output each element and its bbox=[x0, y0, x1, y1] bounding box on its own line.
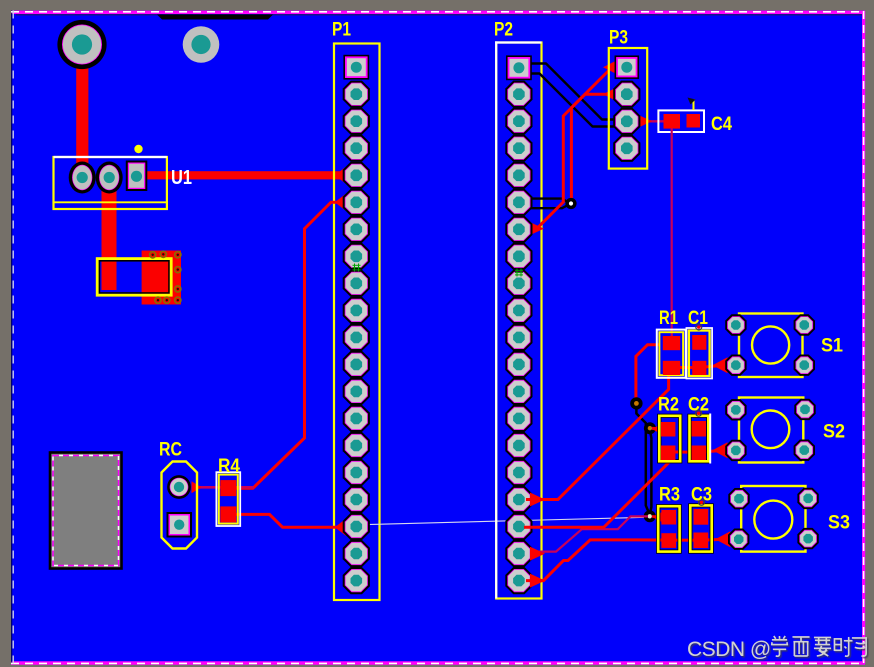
wire: wide trace pad A to U1 pin1 bbox=[76, 45, 88, 177]
via2 bbox=[644, 422, 656, 434]
wire: black trace pair P2.1 to P3.3 bbox=[530, 64, 615, 127]
C3 pad2 bbox=[694, 533, 709, 549]
header P1 pad5 bbox=[343, 162, 370, 189]
IC outline bbox=[97, 259, 171, 296]
header P3 pad3 bbox=[613, 108, 640, 135]
header P1 pad14 bbox=[343, 405, 370, 432]
svg-text:R3: R3 bbox=[659, 485, 680, 506]
U1 pin3 (rect pad) bbox=[126, 161, 148, 192]
header P1 pad8 bbox=[343, 243, 370, 270]
header P3 pad1 (square) bbox=[615, 55, 640, 78]
wire: trace RC.1 to R4.1 bbox=[194, 486, 254, 489]
R3 pad2 bbox=[661, 533, 676, 548]
svg-text:S3: S3 bbox=[828, 513, 850, 534]
R2 pad1 bbox=[661, 422, 676, 437]
RC pad1 (round) bbox=[167, 475, 191, 499]
black bar top edge bbox=[157, 15, 273, 20]
keepout region (gray) bbox=[50, 453, 122, 569]
watermark CJK bbox=[771, 636, 788, 656]
header P1 pad20 bbox=[343, 567, 370, 594]
R4 pad1 bbox=[220, 480, 236, 496]
DRC marker on P2 bbox=[515, 269, 523, 277]
wire: trace P3.1 to via A bbox=[571, 67, 618, 198]
header P2 pad20 bbox=[505, 567, 532, 594]
C2 pin1 marker bbox=[696, 410, 702, 416]
wire: trace via3 to R3.1 bbox=[652, 515, 662, 518]
header P1 pad17 bbox=[343, 486, 370, 513]
svg-text:R1: R1 bbox=[659, 308, 678, 329]
svg-text:S1: S1 bbox=[821, 336, 843, 357]
via3 bbox=[644, 510, 656, 522]
RC pad2 (square) bbox=[167, 512, 193, 538]
wire: trace via2 to R2.1 bbox=[652, 427, 662, 430]
mounting pad A (with black ring) bbox=[57, 20, 106, 69]
header P1 outline bbox=[334, 44, 380, 601]
capacitor C3 outline bbox=[690, 505, 711, 551]
header P2 pad14 bbox=[505, 405, 532, 432]
U1 pin2 (oval pad) bbox=[96, 162, 123, 194]
svg-text:R2: R2 bbox=[658, 395, 679, 416]
IC pin holes bbox=[150, 252, 156, 258]
wire: black trace pair P2.6 to via A bbox=[530, 199, 569, 209]
wire: black trace via1 to via3 bbox=[636, 403, 648, 512]
svg-text:RC: RC bbox=[159, 440, 182, 461]
IC pad region (red) bbox=[142, 251, 181, 305]
header P2 pad5 bbox=[505, 162, 532, 189]
switch S3 pads bbox=[728, 488, 749, 509]
U1 pin1 (oval pad) bbox=[69, 162, 96, 194]
header P2 pad7 bbox=[505, 216, 532, 243]
header P2 pad3 bbox=[505, 108, 532, 135]
wire: trace R3.2 C3.2 to S3.3 bbox=[637, 539, 724, 540]
wire: trace R2.2 to P2.17 bbox=[524, 452, 669, 527]
op U1 outline bbox=[54, 157, 167, 209]
header P1 pad18 bbox=[343, 513, 370, 540]
header P2 pad9 bbox=[505, 270, 532, 297]
R1 pad1 bbox=[663, 336, 680, 350]
wire: trace R2.2 C2.2 to S2.3 bbox=[668, 451, 721, 453]
C3 pin1 marker bbox=[699, 499, 705, 505]
header P2 pad11 bbox=[505, 324, 532, 351]
header P1 pad3 bbox=[343, 108, 370, 135]
header P2 pad18 bbox=[505, 513, 532, 540]
switch S2 pads bbox=[725, 399, 746, 420]
R1 pad2 bbox=[663, 361, 680, 375]
header P1 pad7 bbox=[343, 216, 370, 243]
header P3 pad2 bbox=[613, 81, 640, 108]
svg-text:P1: P1 bbox=[332, 20, 351, 41]
C2 pad2 bbox=[692, 446, 707, 461]
capacitor C4 outline bbox=[658, 110, 704, 132]
svg-text:CSDN @: CSDN @ bbox=[687, 638, 771, 661]
C3 pad1 bbox=[694, 509, 709, 525]
svg-text:U1: U1 bbox=[171, 167, 192, 189]
R3 pad1 bbox=[661, 510, 676, 525]
svg-text:S2: S2 bbox=[823, 422, 845, 443]
R4 pad2 bbox=[220, 506, 236, 522]
header P1 pad12 bbox=[343, 351, 370, 378]
wire: black trace via2 to via3 bbox=[650, 430, 652, 513]
svg-text:C4: C4 bbox=[711, 114, 732, 135]
switch S1 pads bbox=[725, 314, 746, 335]
C4 pad1 bbox=[664, 114, 681, 129]
C4 pin1 marker bbox=[693, 99, 695, 110]
header P2 pad1 (square) bbox=[506, 55, 532, 80]
header P2 pad16 bbox=[505, 459, 532, 486]
header P3 pad4 bbox=[613, 135, 640, 162]
header P1 pad19 bbox=[343, 540, 370, 567]
svg-text:R4: R4 bbox=[218, 456, 240, 477]
wire: trace P2.16 to R1.2 bbox=[526, 370, 669, 500]
header P1 pad15 bbox=[343, 432, 370, 459]
C2 pad1 bbox=[692, 421, 707, 437]
wire: crimson trace via3 to P2.18 bbox=[530, 516, 648, 551]
trace R4 pad2 to P1 pad17 bbox=[236, 514, 348, 527]
svg-text:P3: P3 bbox=[609, 28, 628, 49]
switch S1 outline bbox=[739, 314, 803, 378]
wire: trace R1.2 C1.2 to S1.3 bbox=[672, 365, 722, 367]
resistor R2 outline bbox=[659, 416, 680, 462]
resistor R4 outline bbox=[216, 472, 240, 526]
header P3 outline bbox=[609, 48, 647, 169]
wire: crimson trace C4.1 down to R1.1 bbox=[671, 128, 673, 336]
header P2 outline bbox=[495, 41, 541, 598]
mounting pad B bbox=[183, 26, 220, 63]
svg-text:P2: P2 bbox=[494, 20, 513, 41]
header P2 pad8 bbox=[505, 243, 532, 270]
svg-text:C1: C1 bbox=[688, 308, 708, 329]
switch S3 outline bbox=[741, 486, 805, 552]
header P2 pad12 bbox=[505, 351, 532, 378]
C1 pad1 bbox=[692, 335, 706, 350]
wire: trace P3.3 to C4.1 bbox=[629, 120, 646, 123]
header P2 pad13 bbox=[505, 378, 532, 405]
header P1 pad1 (square) bbox=[343, 55, 369, 80]
header P2 pad2 bbox=[505, 81, 532, 108]
DRC marker on P1 bbox=[353, 264, 361, 272]
header P2 pad19 bbox=[505, 540, 532, 567]
via1 bbox=[630, 397, 642, 409]
R2 pad2 bbox=[661, 446, 676, 461]
wire: wide trace U1 pin2 down to IC bbox=[102, 176, 117, 290]
C1 pin1 marker bbox=[696, 324, 702, 330]
header P1 pad10 bbox=[343, 297, 370, 324]
header P2 pad10 bbox=[505, 297, 532, 324]
C1 pad2 bbox=[692, 361, 706, 375]
header P1 pad13 bbox=[343, 378, 370, 405]
C4 pad2 bbox=[687, 114, 701, 128]
header P2 pad6 bbox=[505, 189, 532, 216]
header P1 pad4 bbox=[343, 135, 370, 162]
wire: trace P3.2 to P2.7 bbox=[526, 94, 618, 228]
capacitor C1 outline bbox=[686, 328, 712, 379]
header P1 pad9 bbox=[343, 270, 370, 297]
ratsnest line P1 pad17 to via3 bbox=[366, 517, 649, 524]
connector RC outline bbox=[162, 462, 198, 549]
wire: trace R1.1 to via1 bbox=[636, 345, 660, 400]
U1 pin1 marker dot bbox=[134, 145, 142, 153]
svg-text:C3: C3 bbox=[691, 485, 712, 506]
trace into P1 pad6 (to R4) bbox=[234, 202, 350, 488]
header P2 pad15 bbox=[505, 432, 532, 459]
header P1 pad16 bbox=[343, 459, 370, 486]
header P1 pad11 bbox=[343, 324, 370, 351]
wire: trace P2.19 to R3 row bbox=[526, 540, 637, 581]
svg-text:C2: C2 bbox=[688, 395, 709, 416]
capacitor C2 outline bbox=[690, 414, 711, 464]
wire: trace U1 pin3 to P1 pad4 bbox=[145, 171, 346, 179]
resistor R3 outline bbox=[658, 506, 679, 551]
header P2 pad17 bbox=[505, 486, 532, 513]
header P2 pad4 bbox=[505, 135, 532, 162]
switch S2 outline bbox=[739, 398, 803, 463]
header P1 pad6 bbox=[343, 189, 370, 216]
resistor R1 outline bbox=[657, 330, 686, 378]
header P1 pad2 bbox=[343, 81, 370, 108]
via A bbox=[565, 198, 576, 209]
